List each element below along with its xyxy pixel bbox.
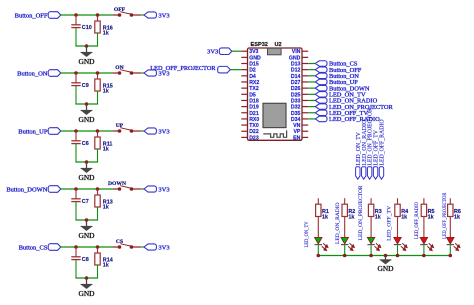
wire: [370, 217, 372, 238]
net flag 3V3: [144, 70, 170, 78]
svg-text:D5: D5: [249, 92, 256, 98]
svg-text:D13: D13: [291, 62, 301, 68]
pin 3V3 (left 1): [241, 49, 258, 55]
pin GND (right 2): [289, 55, 308, 61]
svg-text:C8: C8: [82, 257, 89, 263]
svg-text:RX0: RX0: [249, 117, 259, 123]
pin D13 (right 3): [291, 62, 308, 68]
wire: [308, 93, 315, 95]
junction: [396, 254, 400, 258]
wire: [317, 217, 319, 238]
wire: [141, 188, 144, 190]
svg-text:C10: C10: [82, 25, 92, 31]
wire: [397, 217, 399, 238]
junction: [96, 71, 100, 75]
switch OFF: [113, 7, 141, 17]
svg-text:D18: D18: [249, 98, 259, 104]
capacitor C8: [71, 247, 88, 278]
net label LED_OFF_PROJECTOR (vertical): [442, 192, 448, 239]
wire: [308, 112, 315, 114]
svg-text:D35: D35: [291, 111, 301, 117]
net label Button_OFF: [15, 12, 61, 20]
svg-text:LED_ON_TV: LED_ON_TV: [304, 221, 310, 247]
junction: [317, 254, 321, 258]
wire: [141, 246, 144, 248]
LED D1 LED_ON_TV: [315, 237, 328, 250]
wire: [75, 103, 98, 105]
net flag LED_OFF_TV: [315, 110, 368, 117]
svg-text:Button_OFF: Button_OFF: [15, 12, 48, 19]
wire: [61, 14, 113, 16]
wire: [230, 69, 241, 71]
pin EN (right 15): [293, 135, 308, 141]
svg-text:U2: U2: [275, 42, 282, 48]
svg-text:1k: 1k: [322, 214, 328, 220]
net label LED_ON_TV (vertical): [304, 221, 310, 247]
wire: [61, 130, 113, 132]
resistor R6: [448, 198, 461, 220]
svg-text:Button_DOWN: Button_DOWN: [6, 186, 47, 193]
LED D4 LED_OFF_TV: [394, 237, 407, 250]
junction: [85, 276, 89, 280]
svg-text:D2: D2: [249, 68, 256, 74]
svg-text:GND: GND: [78, 289, 95, 298]
net flag Button_OFF: [315, 67, 361, 74]
resistor R1: [316, 198, 329, 220]
net flag LED_ON_PROJECTOR: [315, 104, 393, 111]
pin D15 (left 3): [241, 62, 259, 68]
resistor R2: [342, 198, 355, 220]
pin D18 (left 9): [241, 98, 259, 104]
junction: [85, 44, 89, 48]
svg-text:VIN: VIN: [292, 49, 301, 55]
svg-text:ESP32: ESP32: [251, 42, 268, 48]
ground: [380, 256, 392, 265]
svg-text:GND: GND: [78, 57, 95, 66]
wire: [141, 72, 144, 74]
svg-text:LED_ON_PROJECTOR: LED_ON_PROJECTOR: [358, 185, 364, 240]
junction: [96, 245, 100, 249]
net flag Button_UP: [315, 79, 358, 86]
svg-text:C7: C7: [82, 199, 89, 205]
pin D26 (right 7): [291, 86, 308, 92]
svg-text:1k: 1k: [103, 147, 109, 153]
net label LED_OFF_RADIO (vertical): [414, 202, 420, 239]
net label Button_DOWN: [6, 186, 60, 194]
capacitor C9: [71, 73, 88, 104]
svg-text:VN: VN: [293, 123, 300, 129]
LED D2 LED_ON_RADIO: [341, 237, 354, 250]
svg-text:D15: D15: [249, 62, 259, 68]
svg-text:LED_ON_RADIO: LED_ON_RADIO: [335, 202, 341, 244]
svg-text:GND: GND: [377, 264, 394, 273]
net flag 3V3: [144, 128, 170, 135]
svg-text:GND: GND: [249, 55, 261, 61]
switch CS: [113, 239, 141, 249]
svg-text:GND: GND: [78, 231, 95, 240]
svg-text:3V3: 3V3: [207, 48, 218, 55]
pin D27 (right 6): [291, 80, 308, 86]
net label Button_ON: [17, 70, 61, 78]
LED D3 LED_ON_PROJECTOR: [367, 237, 380, 250]
net label LED_ON_PROJECTOR (vertical): [358, 185, 364, 240]
pin VIN (right 1): [292, 49, 308, 55]
wire: [308, 87, 315, 89]
junction: [85, 102, 89, 106]
net flag LED_ON_TV: [315, 92, 366, 99]
junction: [96, 129, 100, 133]
net flag LED_ON_TV (vertical): [356, 131, 362, 179]
ESP32 module U2: [248, 48, 303, 140]
svg-text:1k: 1k: [375, 214, 381, 220]
pin TX2 (left 7): [241, 86, 259, 92]
capacitor C7: [71, 189, 88, 220]
svg-text:VP: VP: [293, 129, 300, 135]
wire: [449, 245, 451, 255]
wire: [308, 99, 315, 101]
svg-text:3V3: 3V3: [249, 49, 258, 55]
svg-text:D12: D12: [291, 68, 301, 74]
svg-text:1k: 1k: [401, 214, 407, 220]
antenna: [263, 130, 286, 137]
svg-text:LED_OFF_PROJECTOR: LED_OFF_PROJECTOR: [442, 192, 448, 239]
wire: [449, 217, 451, 238]
wire: [308, 63, 315, 65]
USB connector block: [268, 48, 282, 55]
svg-text:1k: 1k: [428, 214, 434, 220]
pin D14 (right 5): [291, 74, 308, 80]
junction: [422, 254, 426, 258]
net flag 3V3: [144, 186, 170, 194]
svg-text:1k: 1k: [103, 89, 109, 95]
svg-text:D14: D14: [291, 74, 301, 80]
pin D25 (right 8): [291, 92, 308, 98]
svg-text:D26: D26: [291, 86, 301, 92]
junction: [74, 13, 78, 17]
net label LED_OFF_TV (vertical): [387, 206, 393, 241]
svg-text:D19: D19: [249, 105, 259, 111]
wire: [61, 188, 113, 190]
pin D32 (right 10): [291, 105, 308, 111]
resistor R15: [95, 73, 113, 104]
wire: [232, 50, 242, 52]
ground: [81, 220, 93, 231]
svg-text:C6: C6: [82, 141, 89, 147]
junction: [343, 254, 347, 258]
svg-text:OFF: OFF: [114, 7, 126, 13]
wire: [308, 81, 315, 83]
svg-text:D27: D27: [291, 80, 301, 86]
capacitor C6: [71, 131, 88, 162]
wire: [308, 69, 315, 71]
pin D21 (left 11): [241, 111, 259, 117]
pin D2 (left 4): [241, 68, 256, 74]
svg-text:LED_OFF_TV: LED_OFF_TV: [387, 206, 393, 241]
wire: [141, 14, 144, 16]
junction: [74, 71, 78, 75]
junction: [74, 245, 78, 249]
wire: [423, 245, 425, 255]
pin D33 (right 9): [291, 98, 308, 104]
wire: [141, 130, 144, 132]
svg-text:GND: GND: [289, 55, 301, 61]
RF shield: [263, 103, 286, 127]
net flag Button_ON: [315, 73, 359, 80]
switch ON: [113, 65, 141, 75]
ground: [81, 104, 93, 115]
wire: [344, 245, 346, 255]
svg-text:D34: D34: [291, 117, 301, 123]
resistor R4: [395, 198, 408, 220]
svg-text:D21: D21: [249, 111, 259, 117]
svg-text:1k: 1k: [103, 31, 109, 37]
resistor R5: [421, 198, 434, 220]
svg-text:D22: D22: [249, 129, 259, 135]
pin D23 (left 15): [241, 135, 259, 141]
ground: [81, 278, 93, 289]
svg-text:3V3: 3V3: [158, 128, 169, 135]
resistor R16: [95, 15, 113, 46]
net flag LED_OFF_RADIO (vertical): [379, 119, 385, 179]
ground: [81, 162, 93, 173]
svg-text:D32: D32: [291, 105, 301, 111]
svg-text:LED_OFF_RADIO: LED_OFF_RADIO: [414, 202, 420, 239]
junction: [74, 187, 78, 191]
wire: [423, 217, 425, 238]
svg-text:3V3: 3V3: [158, 186, 169, 193]
wire: [308, 118, 315, 120]
svg-text:1k: 1k: [348, 214, 354, 220]
pin D34 (right 12): [291, 117, 308, 123]
net flag LED_OFF_TV (vertical): [373, 129, 379, 179]
net flag LED_ON_RADIO (vertical): [362, 120, 368, 180]
svg-text:1k: 1k: [454, 214, 460, 220]
wire: [397, 245, 399, 255]
junction: [369, 254, 373, 258]
pin D19 (left 10): [241, 105, 259, 111]
net label LED_OFF_PROJECTOR: [150, 65, 230, 73]
wire: [61, 246, 113, 248]
svg-text:3V3: 3V3: [158, 244, 169, 251]
wire: [318, 255, 450, 257]
net label LED_ON_RADIO (vertical): [335, 202, 341, 244]
pin D4 (left 5): [241, 74, 256, 80]
pin TX0 (left 13): [241, 123, 259, 129]
net flag Button_CS: [315, 61, 358, 68]
pin RX2 (left 6): [241, 80, 259, 86]
ground: [81, 46, 93, 57]
resistor R11: [95, 131, 113, 162]
svg-text:GND: GND: [78, 173, 95, 182]
net flag 3V3: [144, 244, 170, 252]
net flag LED_ON_RADIO: [315, 98, 377, 105]
pin GND (left 2): [241, 55, 261, 61]
net flag 3V3: [144, 12, 170, 20]
resistor R3: [368, 198, 381, 220]
wire: [75, 219, 98, 221]
pin VP (right 14): [293, 129, 308, 135]
junction: [96, 13, 100, 17]
svg-text:EN: EN: [293, 135, 300, 141]
wire: [317, 245, 319, 255]
pin RX0 (left 12): [241, 117, 259, 123]
pin D12 (right 4): [291, 68, 308, 74]
LED D6 LED_OFF_PROJECTOR: [447, 237, 460, 250]
net label Button_UP: [18, 128, 61, 136]
pin VN (right 13): [293, 123, 308, 129]
junction: [384, 254, 388, 258]
pin D35 (right 11): [291, 111, 308, 117]
svg-text:C9: C9: [82, 83, 89, 89]
svg-text:LED_OFF_RADIO: LED_OFF_RADIO: [380, 119, 386, 165]
pin D5 (left 8): [241, 92, 256, 98]
svg-text:D25: D25: [291, 92, 301, 98]
svg-text:GND: GND: [78, 115, 95, 124]
switch UP: [113, 123, 141, 133]
resistor R13: [95, 189, 113, 220]
wire: [308, 75, 315, 77]
svg-text:TX0: TX0: [249, 123, 259, 129]
svg-text:Button_CS: Button_CS: [19, 244, 48, 251]
wire: [61, 72, 113, 74]
svg-text:RX2: RX2: [249, 80, 259, 86]
svg-text:TX2: TX2: [249, 86, 259, 92]
wire: [370, 245, 372, 255]
svg-text:D33: D33: [291, 98, 301, 104]
svg-text:3V3: 3V3: [158, 12, 169, 19]
svg-text:Button_UP: Button_UP: [18, 128, 48, 135]
junction: [449, 254, 453, 258]
junction: [85, 218, 89, 222]
svg-text:D4: D4: [249, 74, 256, 80]
wire: [75, 277, 98, 279]
wire: [75, 161, 98, 163]
capacitor C10: [71, 15, 91, 46]
net flag LED_ON_PROJECTOR (vertical): [367, 108, 373, 179]
wire: [308, 106, 315, 108]
net flag Button_DOWN: [315, 85, 370, 92]
wire: [344, 217, 346, 238]
svg-text:D23: D23: [249, 135, 259, 141]
svg-text:Button_ON: Button_ON: [17, 70, 48, 77]
junction: [85, 160, 89, 164]
resistor R14: [95, 247, 113, 278]
pin D22 (left 14): [241, 129, 259, 135]
svg-text:LED_OFF_PROJECTOR: LED_OFF_PROJECTOR: [150, 65, 216, 72]
net label Button_CS: [19, 244, 61, 252]
switch DOWN: [108, 181, 141, 191]
LED D5 LED_OFF_RADIO: [420, 237, 433, 250]
junction: [74, 129, 78, 133]
junction: [96, 187, 100, 191]
svg-text:1k: 1k: [103, 205, 109, 211]
svg-text:1k: 1k: [103, 263, 109, 269]
wire: [75, 45, 98, 47]
net flag LED_OFF_RADIO: [315, 116, 380, 123]
net flag 3V3: [207, 48, 232, 56]
